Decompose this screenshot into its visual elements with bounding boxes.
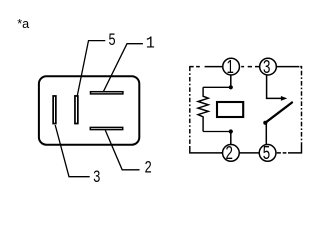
schematic border bottom-right dashes: [276, 152, 288, 154]
pin 3 slot: [53, 96, 56, 124]
svg-text:3: 3: [263, 57, 270, 78]
wire top branch horizontal: [203, 86, 231, 88]
wire junction to terminal 2: [230, 132, 232, 153]
svg-text:2: 2: [145, 159, 152, 177]
svg-text:1: 1: [146, 34, 155, 53]
schematic border right (dash-dot): [301, 71, 303, 147]
pin 1 slot: [91, 92, 123, 94]
wire bottom branch horizontal: [203, 131, 231, 133]
svg-text:*a: *a: [17, 17, 29, 31]
schematic border top-left segment (dash-dot): [189, 66, 223, 68]
leader line pin 1: [104, 44, 143, 91]
junction dot bottom: [229, 129, 233, 133]
switch pivot dot: [263, 121, 267, 125]
wire pivot to terminal 5: [265, 123, 267, 153]
svg-text:3: 3: [93, 168, 100, 186]
schematic border left (dash-dot): [189, 67, 191, 148]
svg-text:5: 5: [108, 32, 115, 50]
switch blade: [265, 103, 292, 123]
wire terminal 3 down and right: [267, 67, 282, 99]
schematic border top-right segment (solid): [276, 66, 299, 68]
pin 5 slot: [75, 96, 78, 124]
schematic border top-middle segment (dashed): [239, 66, 260, 68]
terminal circle 3: [260, 58, 277, 75]
schematic border bottom-left segment (solid): [190, 148, 222, 153]
schematic border top-right corner: [300, 67, 301, 69]
relay coil: [217, 102, 243, 117]
leader line pin 5: [77, 41, 105, 96]
resistor R: [198, 87, 208, 131]
svg-text:1: 1: [226, 57, 233, 78]
arrowhead: [281, 96, 287, 101]
terminal circle 1: [223, 58, 240, 75]
svg-text:2: 2: [225, 143, 232, 164]
svg-text:5: 5: [263, 143, 270, 164]
terminal circle 5: [259, 145, 276, 162]
leader line pin 3: [55, 125, 89, 177]
relay body outline: [39, 76, 139, 145]
schematic border bottom-right corner: [288, 147, 302, 153]
pin 2 slot: [90, 127, 122, 129]
schematic border bottom-middle segment (solid): [221, 152, 259, 154]
wire terminal 1 to top junction: [230, 67, 232, 88]
leader line pin 2: [105, 130, 139, 170]
junction dot top: [229, 85, 233, 89]
terminal circle 2: [223, 145, 240, 162]
